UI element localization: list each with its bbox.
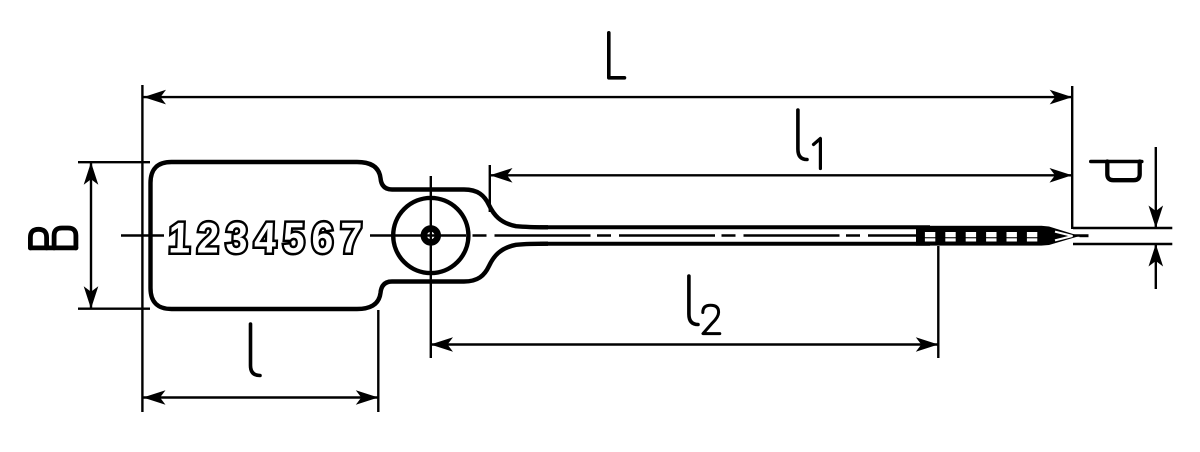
dim l1 line: [490, 174, 1072, 176]
dimension letters (technical lettering drawn as paths): [30, 33, 1141, 376]
ext line B bottom: [78, 308, 150, 310]
l2 right: [916, 337, 939, 352]
d top (points down): [1149, 206, 1164, 229]
L right: [1050, 90, 1073, 105]
ext line l right: [377, 310, 379, 412]
part outline strokes: [151, 162, 549, 309]
dim L line: [144, 96, 1073, 98]
ext line d top: [1073, 227, 1172, 229]
B top: [84, 162, 99, 185]
ext line right (L / l1): [1071, 86, 1073, 229]
strap top line: [540, 225, 930, 229]
lock circle: [393, 198, 468, 273]
arrowheads: [84, 90, 1163, 405]
dim d arrow shafts: [1155, 147, 1157, 228]
strap pointed tip: [1041, 226, 1089, 246]
serrated strap section: [916, 226, 1041, 246]
dim l2 line: [431, 343, 939, 345]
ext line d bottom: [1073, 243, 1172, 245]
d bottom (points up): [1149, 244, 1164, 267]
letter l2: [689, 276, 698, 325]
tag left side: [151, 162, 172, 309]
tag outline bottom contour: [172, 244, 549, 309]
centerline (horizontal axis, dash-dot): [121, 234, 1089, 236]
letter l (bottom): [251, 324, 261, 376]
letter d (rotated 90ccw): [1091, 160, 1142, 164]
l1 left: [490, 168, 513, 183]
letter L: [609, 33, 625, 78]
letter l1: [798, 110, 807, 160]
l1 right: [1050, 168, 1073, 183]
l left: [143, 390, 166, 405]
lock pin (inner donut): [424, 229, 438, 243]
seal tag body (rounded label + tab outline, white filled): [151, 162, 1001, 309]
circle vertical centerline / l2 left extension: [430, 176, 432, 358]
ext line left (L / l): [141, 85, 143, 412]
ext line l2 right: [937, 246, 939, 358]
dimension lines: [78, 85, 1172, 412]
dim B line: [90, 163, 92, 308]
L left: [144, 90, 167, 105]
strap bottom line: [540, 242, 930, 246]
B bottom: [84, 286, 99, 309]
ext line B top: [78, 161, 150, 163]
tag number text 1234567: [168, 214, 370, 262]
letter B (rotated 90ccw): [30, 245, 76, 250]
l right: [356, 390, 379, 405]
dim l line: [143, 396, 378, 398]
svg-text:1234567: 1234567: [168, 214, 370, 262]
white backing behind tag number: [164, 214, 366, 258]
tag outline top contour: [172, 162, 549, 227]
l2 left: [431, 337, 454, 352]
ext line l1 left: [489, 165, 491, 212]
